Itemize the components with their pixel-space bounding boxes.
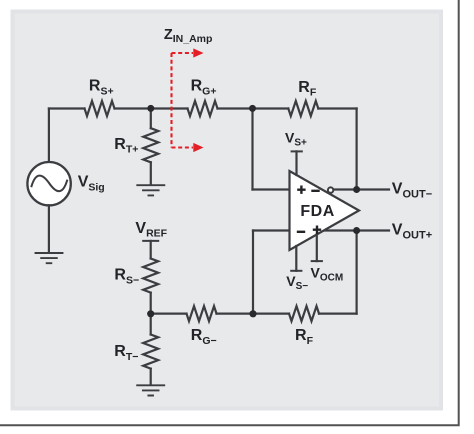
- resistor RF top: [288, 101, 318, 116]
- wire node B to RF top: [253, 107, 289, 109]
- pin VS+ lead: [295, 151, 297, 175]
- node C junction: [147, 310, 154, 317]
- op-amp plus input mark: [297, 186, 305, 194]
- pin VS- lead: [295, 246, 297, 271]
- wire RS- to node C: [150, 293, 152, 314]
- wire bubble to VOUT-: [334, 188, 389, 190]
- wire to op-amp +input: [253, 188, 290, 190]
- svg-text:FDA: FDA: [300, 203, 334, 220]
- resistor RT+: [143, 128, 158, 162]
- wire node A to RT+: [150, 109, 152, 129]
- impedance probe ZIN dashed arrows: [172, 53, 194, 148]
- wire node C to RT-: [150, 314, 152, 335]
- op-amp minus output mark: [311, 190, 319, 192]
- wire RT- to ground: [150, 369, 152, 385]
- op-amp plus output mark: [313, 226, 321, 234]
- wire RT+ to ground: [150, 162, 152, 184]
- wire source to ground: [48, 205, 50, 252]
- wire top-left horizontal: [49, 107, 85, 109]
- resistor RG+: [188, 101, 218, 116]
- supply cap VREF: [143, 240, 158, 242]
- wire RF top to feedback corner: [318, 107, 356, 109]
- arrowhead top: [193, 48, 203, 57]
- wire -input vertical to node D: [252, 231, 254, 314]
- node D junction: [249, 310, 256, 317]
- wire RG- to node D: [217, 313, 254, 315]
- node OUT+ junction: [353, 227, 360, 234]
- wire node D to RF bottom: [253, 313, 289, 315]
- ground RT-: [137, 385, 164, 395]
- resistor RF bottom: [289, 306, 319, 321]
- wire out+ node down to RF bottom corner: [356, 231, 358, 314]
- supply cap VOCM: [312, 260, 322, 262]
- node OUT- junction: [353, 186, 360, 193]
- wire RF bottom to corner: [319, 313, 357, 315]
- wire node C to RG-: [151, 313, 187, 315]
- wire -input horizontal: [253, 229, 290, 231]
- wire left source vertical: [48, 109, 50, 163]
- node A junction: [147, 105, 154, 112]
- supply cap VS+: [292, 150, 302, 152]
- resistor RS+: [85, 101, 115, 116]
- wire feedback vertical down to out- node: [356, 109, 358, 190]
- wire VREF to RS-: [150, 241, 152, 259]
- wire RS+ to RG+: [115, 107, 188, 109]
- arrowhead bottom: [193, 143, 203, 152]
- wire lower output to VOUT+: [320, 229, 389, 231]
- ground source: [36, 253, 63, 263]
- ground RT+: [137, 185, 164, 195]
- resistor RG-: [187, 306, 217, 321]
- resistor RS-: [143, 259, 158, 293]
- source VSig: [27, 162, 70, 205]
- supply cap VS-: [291, 270, 301, 272]
- output inversion bubble: [328, 187, 333, 192]
- pin VOCM lead: [316, 235, 318, 262]
- wire RG+ to node B: [218, 107, 253, 109]
- node B junction: [249, 105, 256, 112]
- resistor RT-: [143, 335, 158, 369]
- op-amp FDA body: [290, 171, 360, 250]
- wire node B down: [251, 109, 253, 190]
- op-amp minus input mark: [297, 231, 305, 233]
